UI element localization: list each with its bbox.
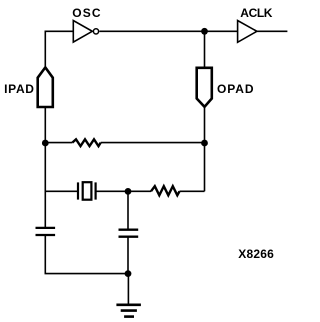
svg-text:OPAD: OPAD xyxy=(217,82,254,96)
ground top bar xyxy=(116,303,140,306)
wire: OPAD bottom down right column to crystal row xyxy=(204,107,206,192)
wire: crystal right plate to series resistor xyxy=(96,190,151,192)
svg-text:ACLK: ACLK xyxy=(240,6,272,20)
capacitor C2 top plate xyxy=(119,229,139,231)
svg-text:IPAD: IPAD xyxy=(4,82,35,96)
op-amp U1 inverter OSC triangle xyxy=(73,21,92,43)
ground middle bar xyxy=(121,309,137,312)
wire: series resistor to right column corner xyxy=(180,190,205,192)
buffer U2 ACLK triangle xyxy=(238,21,257,43)
wire: feedback resistor row right lead xyxy=(101,142,205,144)
wire: OSC output to ACLK buffer input xyxy=(99,30,237,32)
node: junction dot bottom rail / ground stem xyxy=(125,270,132,277)
wire: C1 bottom down to bottom rail xyxy=(45,235,128,274)
wire: ground stem xyxy=(127,274,129,305)
node: junction dot crystal row / middle column xyxy=(125,188,132,195)
wire: ACLK output xyxy=(257,30,288,32)
wire: top rail from left column to OSC inverter input xyxy=(45,31,73,67)
node: junction dot left end of feedback resistor row xyxy=(42,140,49,147)
capacitor C2 bottom plate xyxy=(119,236,139,238)
capacitor C1 bottom plate xyxy=(36,234,56,236)
svg-text:X8266: X8266 xyxy=(238,247,274,261)
node: junction dot at OSC output / OPAD top xyxy=(201,28,208,35)
pad OPAD (pentagon pointing down) xyxy=(197,68,212,107)
pad IPAD (pentagon pointing up) xyxy=(38,67,53,107)
inverter OSC output bubble xyxy=(93,29,98,34)
wire: feedback resistor row left lead xyxy=(45,142,72,144)
capacitor C1 top plate xyxy=(36,227,56,229)
node: junction dot right end of feedback resistor row xyxy=(201,140,208,147)
wire: OPAD top connection xyxy=(204,31,206,68)
resistor R2 series zigzag xyxy=(151,186,180,195)
svg-text:OSC: OSC xyxy=(72,6,102,20)
wire: middle column from crystal row junction down to right capacitor xyxy=(127,191,129,229)
resistor R1 feedback zigzag xyxy=(72,139,100,146)
crystal Y1 body rectangle xyxy=(83,182,92,200)
wire: IPAD bottom down left column to left capacitor xyxy=(44,107,46,228)
wire: crystal row left lead xyxy=(45,190,78,192)
crystal Y1 right plate xyxy=(94,182,96,199)
crystal Y1 left plate xyxy=(77,182,79,199)
wire: C2 bottom down to bottom rail junction xyxy=(127,237,129,274)
ground bottom bar xyxy=(124,315,134,318)
